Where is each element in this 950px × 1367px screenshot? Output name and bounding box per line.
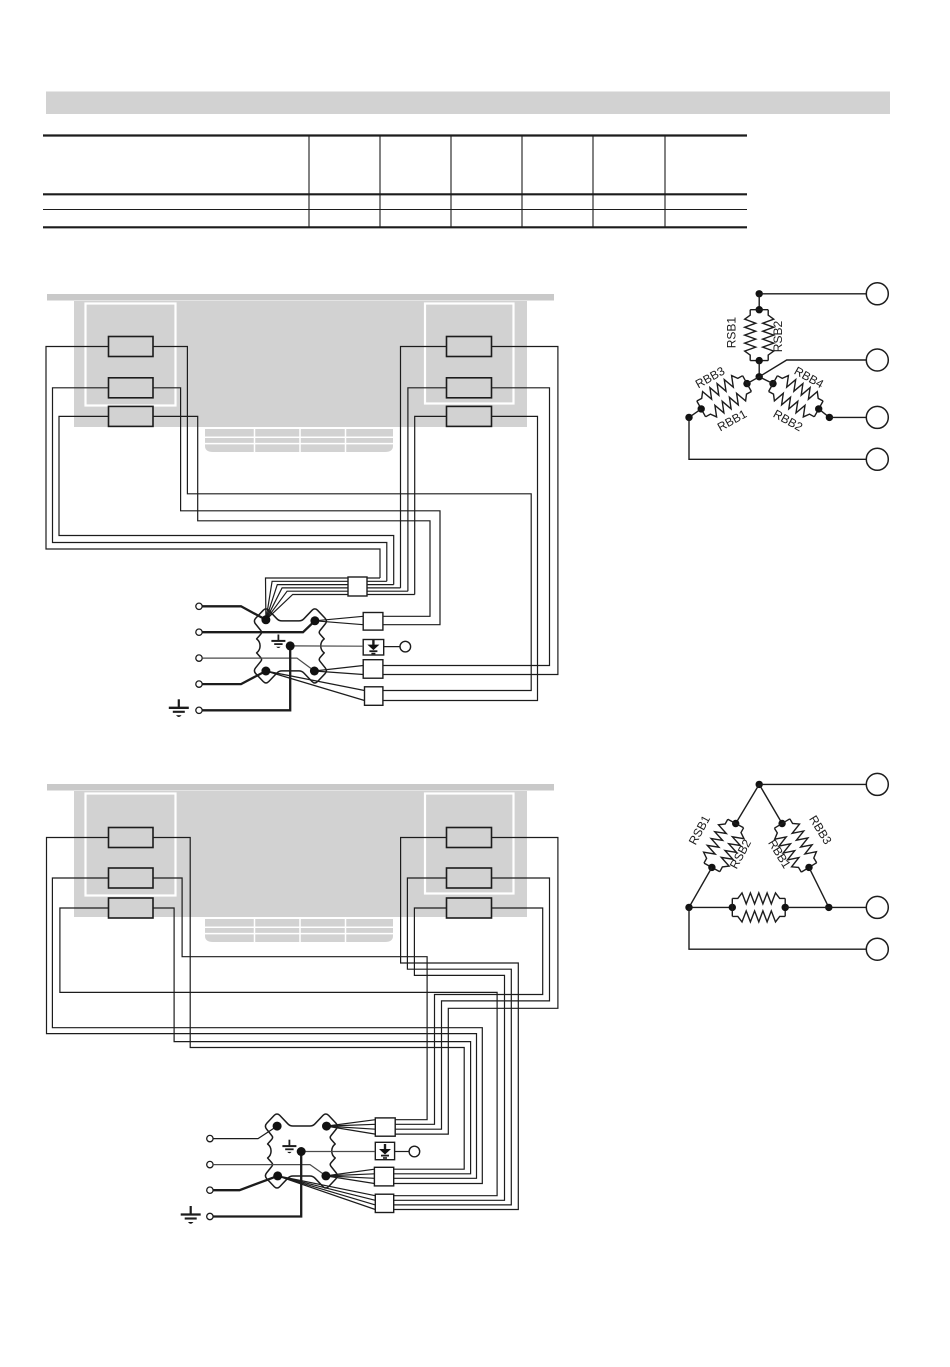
wire bundle line 3 from TL terminal bbox=[266, 585, 394, 620]
resistor bottom pair upper bbox=[731, 898, 733, 916]
lower left heater outline bbox=[86, 794, 176, 896]
upper right heater outline bbox=[425, 304, 514, 404]
resistor RBB4 bbox=[769, 376, 778, 392]
node RSB pair bottom bbox=[756, 357, 763, 364]
node bottom resistor right bbox=[782, 904, 789, 911]
wire RBB right to node bbox=[819, 409, 830, 418]
wire corner node to line terminal 4 bbox=[689, 417, 866, 459]
lower chassis earth symbol bbox=[190, 1206, 192, 1214]
upper terminal grid bbox=[205, 429, 393, 452]
table bottom rule bbox=[43, 226, 747, 228]
wire lower BR terminal fan 4 bbox=[326, 1176, 375, 1184]
lower link box 3 bbox=[375, 1194, 393, 1212]
upper left element terminal block 3 bbox=[109, 406, 154, 426]
terminal dot centre bbox=[286, 641, 295, 650]
node RBB left top bbox=[743, 380, 750, 387]
wire terminal 3 to BR bbox=[202, 658, 314, 671]
supply terminal circle 1 bbox=[196, 603, 202, 609]
wire lower earth link to terminal circle bbox=[395, 1151, 409, 1153]
lower terminal dot BL bbox=[273, 1171, 282, 1180]
node bottom resistor left bbox=[729, 904, 736, 911]
wire delta bottom right segment bbox=[785, 906, 829, 908]
node RBB right bottom bbox=[815, 405, 822, 412]
wire upper left element 2 right terminal bbox=[153, 388, 440, 625]
wire lower terminal 1 to TL bbox=[213, 1126, 277, 1139]
wire lower BR terminal fan 3 bbox=[326, 1176, 375, 1178]
delta left corner node bbox=[685, 904, 692, 911]
wire lower right element 2 left terminal bbox=[394, 878, 511, 1205]
lower supply terminal circle 2 bbox=[207, 1161, 213, 1167]
wire lower terminal 3 to BL bbox=[213, 1176, 278, 1190]
wire lower TR terminal fan 1 bbox=[327, 1120, 376, 1126]
wire bundle line 5 from TL terminal bbox=[266, 591, 408, 620]
supply terminal circle 2 bbox=[196, 629, 202, 635]
wire upper right element 3 right terminal bbox=[383, 416, 538, 700]
terminal dot TL bbox=[261, 615, 270, 624]
upper connector internal earth bbox=[277, 635, 279, 641]
wire right pair to right corner bbox=[809, 867, 829, 907]
lower link box 2 bbox=[374, 1167, 393, 1186]
wire lower centre terminal to earth link bbox=[301, 1151, 375, 1153]
wire left pair to left corner bbox=[689, 867, 712, 907]
wire terminal 4 to BL bbox=[202, 671, 266, 684]
wire apex to left pair bbox=[736, 784, 760, 823]
upper left element terminal block 2 bbox=[109, 378, 154, 398]
svg-text:RSB1: RSB1 bbox=[725, 317, 739, 349]
line terminal circle 1 bbox=[866, 283, 888, 305]
table column divider 6 bbox=[664, 136, 666, 228]
page title bar bbox=[46, 92, 890, 115]
line terminal circle 2 bbox=[866, 349, 888, 371]
wire node to line terminal 3 bbox=[829, 416, 866, 418]
node top bbox=[756, 290, 763, 297]
wire lower BL terminal fan 3 bbox=[278, 1176, 376, 1205]
resistor RBB1 bbox=[706, 392, 752, 417]
table inner thin rule bbox=[43, 209, 747, 211]
upper left heater outline bbox=[86, 304, 176, 406]
wire right corner to line terminal 2 bbox=[829, 906, 867, 908]
node right bbox=[826, 414, 833, 421]
lower right element terminal block 3 bbox=[447, 898, 492, 918]
wire BR terminal to link fan bbox=[314, 666, 363, 672]
table top rule bbox=[43, 134, 747, 136]
resistor bottom pair lower bbox=[732, 893, 785, 904]
resistor RSB2 bbox=[763, 310, 774, 361]
wire upper right element 1 right terminal bbox=[383, 347, 558, 675]
wire lower left element 2 right terminal bbox=[153, 878, 427, 1120]
wire lower BL terminal fan 2 bbox=[278, 1176, 376, 1200]
table column divider 4 bbox=[521, 136, 523, 228]
wire bundle line 2 from TL terminal bbox=[266, 581, 387, 620]
upper link box 3 bbox=[365, 687, 383, 706]
upper link box 1 bbox=[363, 613, 383, 631]
wire upper left element 1 right terminal bbox=[153, 347, 531, 691]
resistor RSB1 delta bbox=[728, 819, 744, 828]
wire lower BR terminal fan 2 bbox=[326, 1174, 375, 1176]
wire left corner to line terminal 3 bbox=[689, 907, 866, 949]
wire upper left element 2 left terminal bbox=[53, 388, 387, 582]
lower supply connector outline bbox=[265, 1114, 337, 1188]
wire bundle line 1 from TL terminal bbox=[266, 578, 381, 620]
wire lower right element 1 right terminal bbox=[396, 838, 558, 1135]
line terminal circle 3 bbox=[866, 406, 888, 428]
wire lower right element 3 right terminal bbox=[396, 908, 543, 1124]
upper chassis earth symbol bbox=[178, 699, 180, 707]
wire upper right element 2 left terminal bbox=[408, 388, 447, 591]
wire upper left element 1 left terminal bbox=[46, 347, 380, 579]
lower terminal dot centre bbox=[297, 1147, 306, 1156]
lower right element terminal block 1 bbox=[447, 828, 492, 848]
wire lower left element 3 right terminal bbox=[153, 908, 471, 1174]
supply terminal circle 3 bbox=[196, 655, 202, 661]
wire TR terminal to link fan bbox=[315, 616, 363, 621]
wire upper left element 3 right terminal bbox=[153, 416, 430, 616]
wire lower left element 3 left terminal bbox=[60, 908, 497, 1196]
table header bottom rule bbox=[43, 193, 747, 195]
upper right element terminal block 1 bbox=[447, 337, 492, 357]
wire terminal 1 to TL bbox=[202, 606, 266, 620]
line terminal circle 4 bbox=[866, 448, 888, 470]
supply terminal circle 4 bbox=[196, 681, 202, 687]
node right pair top bbox=[778, 820, 785, 827]
delta line terminal circle 2 bbox=[866, 896, 888, 918]
table column divider 2 bbox=[379, 136, 381, 228]
delta line terminal circle 3 bbox=[866, 938, 888, 960]
resistor RBB1 delta bbox=[774, 828, 801, 872]
wire upper right element 1 left terminal bbox=[401, 347, 447, 588]
wire star point to RBB right bbox=[759, 377, 773, 384]
wire terminal 5 to centre bbox=[202, 646, 290, 710]
upper left element terminal block 1 bbox=[109, 337, 154, 357]
table column divider 3 bbox=[450, 136, 452, 228]
delta right corner node bbox=[825, 904, 832, 911]
upper hob body bbox=[74, 301, 527, 427]
lower link box 1 bbox=[375, 1118, 395, 1136]
lower terminal grid lines bbox=[205, 926, 393, 928]
earth terminal circle bbox=[400, 641, 411, 652]
lower terminal dot BR bbox=[321, 1171, 330, 1180]
wire lower TR terminal fan 3 bbox=[327, 1126, 376, 1129]
lower terminal dot TL bbox=[273, 1122, 282, 1131]
svg-text:RSB2: RSB2 bbox=[771, 321, 785, 353]
lower connector internal earth bbox=[288, 1140, 290, 1146]
wire lower right element 3 left terminal bbox=[394, 908, 505, 1200]
wire delta bottom left segment bbox=[689, 906, 732, 908]
wire apex to line terminal 1 bbox=[759, 783, 866, 785]
wire top node to resistor pair bbox=[758, 294, 760, 310]
wire lower TR terminal fan 4 bbox=[327, 1126, 376, 1134]
wire upper right element 2 right terminal bbox=[383, 388, 550, 666]
lower supply terminal circle 4 bbox=[207, 1213, 213, 1219]
wire terminal 2 to TR bbox=[202, 621, 315, 632]
resistor RBB3 bbox=[743, 376, 752, 392]
lower earth terminal circle bbox=[409, 1146, 420, 1157]
resistor RBB2 bbox=[769, 392, 815, 417]
wire top node to line terminal 1 bbox=[759, 293, 866, 295]
wire lower right element 2 right terminal bbox=[396, 878, 550, 1129]
wire lower BL terminal fan 4 bbox=[278, 1176, 376, 1210]
wire lower terminal 2 to BR bbox=[213, 1165, 326, 1176]
node RSB pair top bbox=[756, 306, 763, 313]
upper right element terminal block 2 bbox=[447, 378, 492, 398]
upper bundle link box bbox=[348, 577, 367, 596]
lower terminal dot TR bbox=[322, 1122, 331, 1131]
lower right element terminal block 2 bbox=[447, 868, 492, 888]
upper earth link symbol bbox=[372, 640, 374, 646]
delta apex node bbox=[756, 781, 763, 788]
wire pair bottom to star point bbox=[758, 361, 760, 377]
wire apex to right pair bbox=[759, 784, 782, 823]
wire bundle line 4 from TL terminal bbox=[266, 588, 401, 620]
wire lower terminal 4 to centre bbox=[213, 1152, 301, 1217]
wire lower left element 2 left terminal bbox=[52, 878, 482, 1184]
wire upper right element 3 left terminal bbox=[415, 416, 447, 594]
resistor RBB3 delta bbox=[774, 819, 789, 828]
wire RBB left to corner node bbox=[689, 409, 701, 418]
upper hob top edge bar bbox=[47, 294, 554, 301]
lower terminal grid bbox=[205, 919, 393, 942]
lower right heater outline bbox=[425, 794, 514, 894]
upper earth link box bbox=[363, 640, 384, 656]
terminal dot BR bbox=[310, 667, 319, 676]
upper right element terminal block 3 bbox=[447, 406, 492, 426]
supply terminal circle 5 bbox=[196, 707, 202, 713]
wire lower BL terminal fan 1 bbox=[278, 1176, 376, 1196]
wire lower right element 1 left terminal bbox=[394, 838, 518, 1210]
node left pair bottom bbox=[708, 864, 715, 871]
wire centre terminal to earth link bbox=[290, 645, 363, 647]
wire bundle line 6 from TL terminal bbox=[266, 595, 415, 620]
resistor RSB1 bbox=[750, 309, 768, 311]
wire lower left element 1 right terminal bbox=[153, 838, 464, 1170]
wire star point to RBB left bbox=[747, 377, 759, 384]
delta line terminal circle 1 bbox=[866, 773, 888, 795]
corner node left bbox=[685, 414, 692, 421]
star point node bbox=[756, 373, 763, 380]
lower left element terminal block 3 bbox=[109, 898, 154, 918]
lower supply terminal circle 3 bbox=[207, 1187, 213, 1193]
terminal dot BL bbox=[261, 667, 270, 676]
wire lower left element 1 left terminal bbox=[47, 838, 477, 1179]
lower hob top edge bar bbox=[47, 784, 554, 791]
terminal dot TR bbox=[310, 616, 319, 625]
upper link box 2 bbox=[363, 660, 383, 679]
wire earth link to terminal circle bbox=[384, 646, 400, 648]
lower earth link symbol bbox=[384, 1144, 386, 1150]
lower hob body bbox=[74, 791, 527, 917]
wire upper left element 3 left terminal bbox=[59, 416, 394, 584]
resistor RSB2 delta bbox=[720, 828, 744, 872]
upper terminal grid lines bbox=[205, 436, 393, 438]
wire star point to line terminal 2 bbox=[759, 360, 866, 377]
table column divider 5 bbox=[592, 136, 594, 228]
lower left element terminal block 1 bbox=[109, 828, 154, 848]
node RBB right top bbox=[769, 380, 776, 387]
lower earth link box bbox=[375, 1142, 394, 1159]
wire lower BR terminal fan 1 bbox=[326, 1169, 375, 1176]
table column divider 1 bbox=[308, 136, 310, 228]
node left pair top bbox=[732, 820, 739, 827]
wire BL terminal to link fan bbox=[266, 671, 365, 691]
lower supply terminal circle 1 bbox=[207, 1135, 213, 1141]
wire lower TR terminal fan 2 bbox=[327, 1124, 376, 1126]
lower left element terminal block 2 bbox=[109, 868, 154, 888]
upper supply connector outline bbox=[254, 609, 326, 683]
node RBB left bottom bbox=[698, 405, 705, 412]
node right pair bottom bbox=[805, 864, 812, 871]
